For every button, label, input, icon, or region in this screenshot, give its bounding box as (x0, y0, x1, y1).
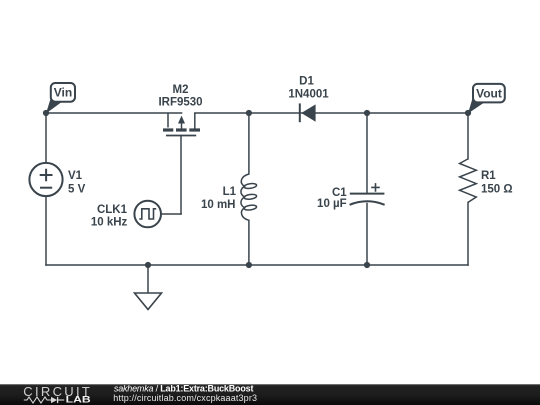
wire C1 bottom lead (366, 204, 368, 266)
logo CircuitLab (23, 384, 92, 405)
transistor M2 (PMOS) (163, 113, 200, 136)
label C1 value (317, 187, 347, 210)
resistor R1 (460, 159, 477, 203)
footer bar (0, 384, 540, 405)
wire ground stub (147, 265, 149, 293)
wire left rail lower (V1 to bottom rail) (45, 196, 47, 265)
wire C1 top lead (366, 113, 368, 194)
svg-text:10 kHz: 10 kHz (91, 217, 128, 229)
ground (135, 293, 162, 310)
junction node dots (43, 110, 471, 268)
label D1 name (288, 76, 329, 101)
wire left rail upper (Vin to V1) (45, 113, 47, 163)
svg-text:R1: R1 (481, 170, 496, 182)
diode D1 (300, 103, 316, 122)
voltage source V1 (29, 163, 62, 196)
svg-text:Vout: Vout (476, 87, 502, 101)
net label Vin (46, 83, 75, 114)
svg-text:CLK1: CLK1 (97, 204, 128, 216)
svg-text:D1: D1 (299, 76, 314, 88)
svg-text:150 Ω: 150 Ω (481, 183, 513, 195)
wire gate lead vertical (180, 136, 182, 215)
wire L1 top lead (248, 113, 250, 174)
wire top rail left (Vin to M2 source) (46, 112, 182, 114)
wire CLK1 to gate horizontal (161, 213, 181, 215)
wire L1 bottom lead (248, 220, 250, 265)
svg-text:http://circuitlab.com/cxcpkaaa: http://circuitlab.com/cxcpkaaat3pr3 (113, 393, 257, 403)
wire bottom rail (46, 264, 468, 266)
label L1 value (201, 186, 237, 211)
capacitor C1 (350, 183, 385, 205)
svg-text:sakhemka / Lab1:Extra:BuckBoos: sakhemka / Lab1:Extra:BuckBoost (114, 384, 254, 394)
wire right rail lower (R1 to bottom rail) (467, 202, 469, 265)
label R1 value (481, 170, 513, 196)
label CLK1 value (91, 204, 128, 229)
svg-text:IRF9530: IRF9530 (158, 96, 202, 108)
svg-text:LAB: LAB (66, 395, 92, 405)
wire right rail upper (Vout to R1) (467, 113, 469, 159)
label M2 name (158, 84, 202, 108)
wire top rail right (M2 drain to Vout) (195, 112, 468, 114)
svg-text:10 mH: 10 mH (201, 199, 236, 211)
inductor L1 (241, 174, 257, 220)
svg-text:5 V: 5 V (68, 183, 86, 195)
svg-text:V1: V1 (68, 170, 83, 182)
svg-text:Vin: Vin (54, 86, 72, 100)
net label Vout (468, 84, 505, 114)
svg-text:1N4001: 1N4001 (288, 89, 329, 101)
svg-text:M2: M2 (173, 84, 189, 96)
svg-text:10 µF: 10 µF (317, 198, 347, 210)
clock source CLK1 (134, 201, 161, 228)
label V1 value (68, 170, 86, 195)
svg-text:L1: L1 (223, 186, 237, 198)
